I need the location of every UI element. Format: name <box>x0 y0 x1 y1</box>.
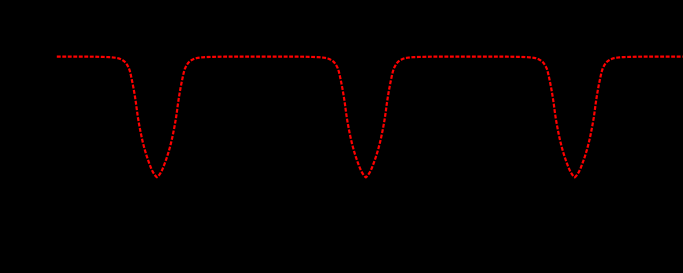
data curve: red dashed periodic dips <box>57 57 683 178</box>
